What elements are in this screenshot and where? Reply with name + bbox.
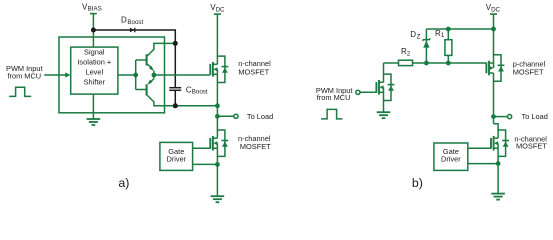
svg-text:1: 1 — [441, 32, 445, 39]
svg-text:BIAS: BIAS — [88, 5, 102, 12]
svg-text:Level: Level — [85, 68, 103, 77]
svg-text:DC: DC — [216, 6, 225, 13]
svg-text:Driver: Driver — [166, 155, 186, 164]
svg-text:To Load: To Load — [522, 112, 548, 121]
svg-text:D: D — [121, 16, 127, 25]
svg-text:MOSFET: MOSFET — [516, 142, 547, 151]
svg-text:b): b) — [412, 176, 423, 190]
svg-text:a): a) — [118, 176, 129, 190]
svg-text:MOSFET: MOSFET — [240, 142, 271, 151]
svg-text:2: 2 — [407, 50, 411, 57]
svg-text:DC: DC — [491, 6, 500, 13]
svg-text:from MCU: from MCU — [7, 71, 41, 80]
svg-text:Boost: Boost — [127, 19, 143, 26]
svg-text:from MCU: from MCU — [317, 93, 351, 102]
svg-text:Signal: Signal — [84, 48, 105, 57]
svg-text:Driver: Driver — [441, 155, 461, 164]
svg-text:D: D — [410, 30, 416, 39]
svg-text:Isolation +: Isolation + — [77, 58, 111, 67]
svg-text:MOSFET: MOSFET — [513, 68, 544, 77]
svg-text:Boost: Boost — [192, 89, 208, 96]
svg-text:To Load: To Load — [247, 112, 273, 121]
svg-text:Shifter: Shifter — [84, 78, 106, 87]
svg-text:MOSFET: MOSFET — [238, 67, 269, 76]
svg-text:Z: Z — [417, 34, 421, 41]
